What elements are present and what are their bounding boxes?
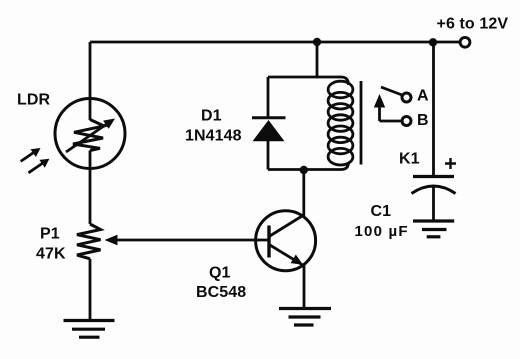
wire P1 to ground xyxy=(89,259,92,319)
transistor Q1 emitter line xyxy=(269,245,304,266)
transistor Q1 base bar xyxy=(267,226,270,258)
wire emitter to ground xyxy=(303,265,306,307)
transistor Q1 collector line xyxy=(269,215,305,237)
LDR internal arrow head xyxy=(103,119,115,129)
relay core bar xyxy=(360,81,363,165)
transistor Q1 circle envelope xyxy=(256,211,316,271)
wire LDR to potentiometer xyxy=(89,151,92,225)
ground symbol under P1 xyxy=(64,321,115,338)
relay block bottom wire xyxy=(268,162,349,170)
svg-text:LDR: LDR xyxy=(17,92,51,109)
svg-text:D1: D1 xyxy=(201,108,222,125)
relay actuation arrow head xyxy=(374,94,385,108)
transistor Q1 emitter arrow head xyxy=(291,255,303,265)
relay contact A circle xyxy=(402,93,411,102)
wire rail to supply terminal xyxy=(433,41,460,44)
svg-text:B: B xyxy=(417,112,429,129)
relay armature arm xyxy=(381,87,402,95)
node junction dot at relay branch xyxy=(313,38,321,46)
light arrow 2 shaft xyxy=(29,163,43,172)
ground symbol under Q1 xyxy=(279,309,331,326)
node junction dot at collector branch xyxy=(300,166,308,174)
potentiometer P1 zigzag xyxy=(77,224,101,259)
wire left vertical (rail to LDR) xyxy=(89,42,92,120)
LDR circle envelope xyxy=(55,99,125,169)
wire diode upper lead xyxy=(267,77,270,117)
svg-text:C1: C1 xyxy=(371,203,392,220)
relay contact B circle xyxy=(402,117,411,126)
supply terminal (open circle) xyxy=(460,37,470,47)
capacitor C1 top plate xyxy=(413,175,454,178)
ground symbol under C1 xyxy=(413,221,454,237)
LDR zigzag resistor element xyxy=(73,120,104,151)
svg-text:K1: K1 xyxy=(399,151,420,168)
svg-text:47K: 47K xyxy=(36,246,66,263)
svg-text:A: A xyxy=(417,88,429,105)
potentiometer wiper arrow head xyxy=(105,235,118,246)
relay contact B wire xyxy=(380,120,403,123)
relay actuation arrow shaft xyxy=(378,107,381,121)
svg-text:1N4148: 1N4148 xyxy=(185,128,242,145)
svg-text:Q1: Q1 xyxy=(209,265,231,282)
svg-text:100 µF: 100 µF xyxy=(355,223,409,240)
relay K1 coil loops xyxy=(328,81,353,165)
relay block top wire xyxy=(268,77,349,85)
svg-text:P1: P1 xyxy=(40,226,60,243)
diode D1 cathode bar xyxy=(252,116,286,119)
LDR internal arrow xyxy=(66,125,106,153)
node junction dot at capacitor branch xyxy=(429,38,437,46)
diode D1 triangle xyxy=(253,120,285,141)
svg-text:+6 to 12V: +6 to 12V xyxy=(437,16,509,33)
light arrow 1 shaft xyxy=(21,153,34,162)
wire diode lower lead xyxy=(267,141,270,170)
potentiometer wiper arrow wire (to Q1 base) xyxy=(117,239,269,242)
wire top rail xyxy=(90,41,433,44)
light arrow 2 head xyxy=(39,159,49,168)
wire rail to relay block xyxy=(316,42,319,77)
wire relay to Q1 collector xyxy=(302,170,305,216)
capacitor plus sign xyxy=(445,158,456,169)
wire capacitor to ground xyxy=(432,188,435,220)
capacitor C1 curved plate xyxy=(412,186,456,194)
light arrow 1 head xyxy=(31,148,41,157)
wire rail to capacitor xyxy=(432,42,435,175)
svg-text:BC548: BC548 xyxy=(196,284,246,301)
